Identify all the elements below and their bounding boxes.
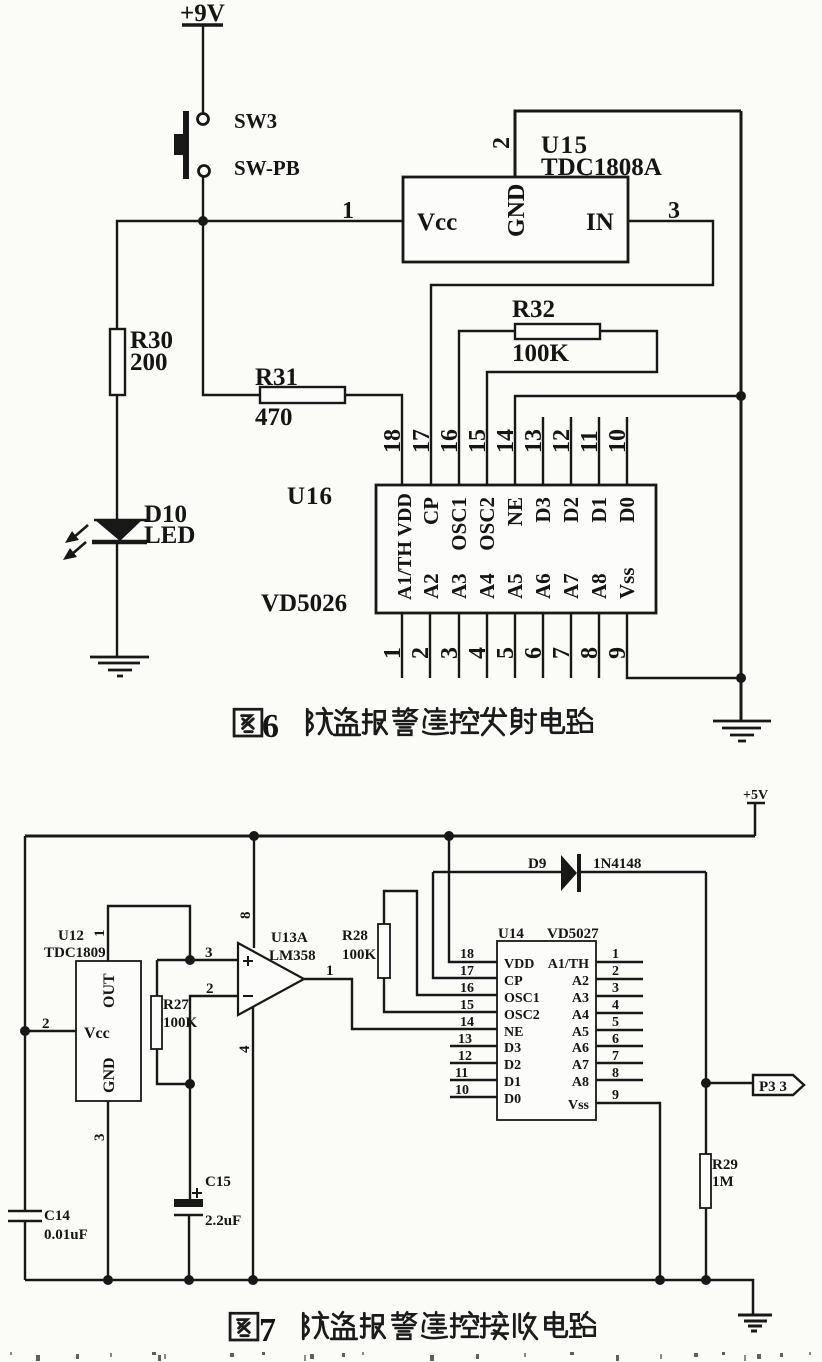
svg-text:OSC1: OSC1 — [447, 497, 471, 551]
svg-text:11: 11 — [577, 430, 603, 453]
svg-text:470: 470 — [255, 404, 293, 431]
junction P3.3 node — [701, 1078, 711, 1088]
svg-text:15: 15 — [465, 429, 491, 453]
svg-text:2.2uF: 2.2uF — [205, 1213, 241, 1229]
svg-text:R28: R28 — [342, 928, 368, 944]
svg-text:18: 18 — [460, 947, 474, 962]
hanzi bao7 — [361, 1313, 385, 1338]
junction C15 rail — [184, 1275, 194, 1285]
svg-text:6: 6 — [521, 647, 547, 659]
svg-text:7: 7 — [612, 1049, 619, 1064]
svg-text:TDC1809: TDC1809 — [44, 945, 106, 961]
svg-text:TDC1808A: TDC1808A — [541, 154, 662, 181]
wire LED to ground — [116, 543, 118, 656]
caption fig6 — [234, 708, 592, 745]
svg-text:NE: NE — [503, 497, 527, 526]
hanzi dao6 — [334, 708, 360, 735]
U14 pin 12 stub — [450, 1062, 497, 1064]
page bottom cut text artifacts — [10, 1352, 811, 1361]
op-amp pin 4 wire — [252, 1007, 254, 1280]
hanzi fang7 — [303, 1312, 328, 1339]
U14 left pin labels — [504, 957, 540, 1107]
svg-text:8: 8 — [612, 1066, 619, 1081]
svg-text:2: 2 — [408, 647, 434, 659]
svg-text:R32: R32 — [512, 296, 555, 323]
svg-text:U13A: U13A — [271, 930, 308, 946]
U16 pin 12 stub — [570, 417, 572, 485]
svg-text:12: 12 — [458, 1049, 472, 1064]
U14 pin 10 stub — [450, 1096, 497, 1098]
svg-text:3: 3 — [437, 647, 463, 659]
U16 pin 7 wire — [570, 613, 572, 678]
junction VDD rail — [444, 831, 454, 841]
svg-text:1N4148: 1N4148 — [593, 856, 641, 872]
U14 pin 11 stub — [450, 1079, 497, 1081]
svg-text:Vss: Vss — [615, 567, 639, 599]
junction U12 GND rail — [103, 1275, 113, 1285]
C15 plus sign — [192, 1188, 202, 1198]
svg-text:D0: D0 — [504, 1092, 521, 1107]
svg-text:A8: A8 — [587, 573, 611, 599]
svg-text:CP: CP — [419, 497, 443, 525]
svg-text:C15: C15 — [205, 1174, 231, 1190]
U16 pin 11 stub — [598, 417, 600, 485]
left rail fig7 — [24, 836, 26, 1211]
resistor R30 — [110, 329, 125, 395]
IC U14 box — [497, 941, 596, 1120]
svg-text:15: 15 — [460, 998, 474, 1013]
U16 pin 13 stub — [542, 417, 544, 485]
diode D9 — [433, 854, 706, 892]
U14 right pin labels — [548, 957, 590, 1113]
U16 pin 6 wire — [542, 613, 544, 678]
wire R30 to LED D10 — [116, 395, 118, 521]
left rail lower segment — [24, 1221, 26, 1280]
hanzi yao6 — [423, 708, 448, 734]
op-amp pin 8 wire — [253, 836, 255, 948]
svg-text:R27: R27 — [163, 997, 189, 1013]
svg-text:D3: D3 — [504, 1041, 521, 1056]
IC U16 box — [376, 485, 656, 613]
svg-text:5: 5 — [493, 647, 519, 659]
IC U15 box — [403, 177, 628, 262]
svg-text:2: 2 — [206, 981, 214, 997]
wire inverting input — [190, 996, 238, 1084]
svg-text:U16: U16 — [287, 483, 333, 510]
svg-text:2: 2 — [612, 964, 619, 979]
junction R29 bottom rail — [701, 1275, 711, 1285]
LED D10 emission arrows — [63, 525, 88, 560]
junction NE rail — [736, 391, 746, 401]
resistor R31 — [260, 387, 345, 403]
junction pin8 rail — [249, 831, 259, 841]
svg-text:3: 3 — [612, 981, 619, 996]
svg-text:Vcc: Vcc — [417, 209, 457, 236]
svg-text:6: 6 — [262, 708, 279, 745]
wire U16 pin 14 NE to right rail — [515, 396, 741, 485]
bottom rail fig7 — [25, 1280, 753, 1315]
hanzi jing7 — [392, 1312, 416, 1339]
junction pin9 bottom rail — [655, 1275, 665, 1285]
svg-text:NE: NE — [504, 1025, 523, 1040]
svg-text:3: 3 — [205, 945, 213, 961]
svg-text:10: 10 — [605, 429, 631, 453]
ground fig7 — [738, 1315, 772, 1331]
svg-text:4: 4 — [465, 647, 491, 659]
svg-text:7: 7 — [259, 1312, 276, 1349]
svg-text:1: 1 — [326, 963, 334, 979]
svg-text:13: 13 — [458, 1032, 472, 1047]
ground fig6 right — [713, 721, 771, 741]
svg-text:D1: D1 — [587, 497, 611, 523]
svg-text:16: 16 — [460, 981, 474, 996]
hanzi dian6 — [542, 708, 563, 733]
svg-text:LED: LED — [144, 522, 195, 549]
svg-text:4: 4 — [237, 1045, 253, 1053]
wire U12 OUT to op-amp input — [108, 906, 190, 961]
wire rail to U14 VDD — [449, 836, 497, 962]
wire op-amp output to U14 NE — [304, 979, 497, 1029]
U16 pin 9 wire to rail — [627, 613, 741, 678]
wire to P3.3 port — [706, 1082, 753, 1084]
hanzi kong6 — [451, 708, 478, 733]
svg-text:A1/TH: A1/TH — [548, 957, 589, 972]
hanzi yao7 — [422, 1312, 447, 1338]
svg-text:OSC2: OSC2 — [475, 497, 499, 551]
svg-text:1: 1 — [612, 947, 619, 962]
svg-text:18: 18 — [380, 429, 406, 453]
hanzi jing6 — [393, 708, 417, 735]
op-amp U13A — [238, 943, 304, 1015]
svg-text:9: 9 — [612, 1088, 619, 1103]
svg-text:D3: D3 — [531, 497, 555, 523]
svg-text:16: 16 — [437, 429, 463, 453]
resistor R29 — [700, 1083, 711, 1280]
wire D9 anode to U14 CP — [433, 872, 497, 978]
svg-text:100K: 100K — [342, 947, 377, 963]
U16 pin 5 wire — [514, 613, 516, 678]
hanzi shou7 — [514, 1313, 536, 1339]
resistor R32 — [515, 324, 600, 339]
wire U15 IN pin 3 to U16 pin 17 — [431, 221, 713, 485]
svg-text:A4: A4 — [475, 573, 499, 599]
U16 pin 10 stub — [626, 417, 628, 485]
svg-text:U14: U14 — [498, 926, 524, 942]
node A junction — [198, 216, 208, 226]
svg-text:D2: D2 — [504, 1058, 521, 1073]
hanzi jie7 — [481, 1312, 508, 1339]
svg-text:9: 9 — [605, 647, 631, 659]
svg-text:VDD: VDD — [504, 957, 534, 972]
hanzi tu7 — [230, 1313, 258, 1340]
svg-text:D0: D0 — [615, 497, 639, 523]
svg-text:4: 4 — [612, 998, 619, 1013]
wire node A down to R31 — [203, 221, 260, 395]
U14 pin 9 wire to bottom rail — [596, 1103, 660, 1280]
U16 pin 4 wire — [486, 613, 488, 678]
port P3.3 — [753, 1075, 804, 1095]
wire node A to U15 pin 1 — [203, 220, 403, 222]
svg-text:OSC1: OSC1 — [504, 991, 540, 1006]
svg-text:12: 12 — [549, 429, 575, 453]
hanzi lu6 — [567, 708, 592, 733]
hanzi dian7 — [545, 1312, 566, 1337]
svg-text:R29: R29 — [712, 1157, 738, 1173]
svg-text:2: 2 — [42, 1016, 50, 1032]
hanzi fang6 — [307, 708, 332, 735]
svg-text:3: 3 — [92, 1134, 108, 1142]
svg-text:GND: GND — [504, 184, 530, 237]
capacitor C15 — [174, 1199, 203, 1280]
svg-text:200: 200 — [130, 349, 168, 376]
svg-text:6: 6 — [612, 1032, 619, 1047]
svg-text:A2: A2 — [419, 573, 443, 599]
svg-text:A5: A5 — [503, 573, 527, 599]
svg-text:Vss: Vss — [568, 1098, 590, 1113]
hanzi lu7 — [570, 1312, 595, 1337]
svg-text:A6: A6 — [572, 1041, 589, 1056]
svg-text:17: 17 — [409, 429, 435, 453]
svg-text:OUT: OUT — [101, 973, 118, 1008]
svg-text:CP: CP — [504, 974, 523, 989]
svg-text:A3: A3 — [447, 573, 471, 599]
svg-text:R31: R31 — [255, 364, 298, 391]
wire +9V to SW3 — [202, 25, 204, 113]
resistor R28 — [378, 891, 497, 1012]
svg-text:7: 7 — [549, 647, 575, 659]
svg-text:A6: A6 — [531, 573, 555, 599]
U16 pin 8 wire — [598, 613, 600, 678]
hanzi fa6 — [481, 708, 506, 735]
op-amp minus marking — [243, 995, 253, 997]
svg-text:11: 11 — [455, 1066, 468, 1081]
svg-text:D1: D1 — [504, 1075, 521, 1090]
svg-text:A2: A2 — [572, 974, 589, 989]
wire SW3 to node A — [202, 177, 204, 221]
svg-text:Vcc: Vcc — [84, 1025, 110, 1042]
svg-text:100K: 100K — [512, 340, 570, 367]
switch SW3 — [174, 111, 210, 179]
svg-text:C14: C14 — [44, 1208, 70, 1224]
wire R32 left to U16 pin 16 — [459, 331, 515, 485]
junction pin9 rail — [736, 673, 746, 683]
svg-text:LM358: LM358 — [269, 948, 316, 964]
svg-text:14: 14 — [460, 1015, 474, 1030]
svg-text:1M: 1M — [712, 1174, 734, 1190]
right rail wire fig6 — [740, 111, 743, 721]
wire inverting node to C15 — [189, 1084, 191, 1199]
caption fig7 — [230, 1312, 595, 1349]
svg-text:13: 13 — [521, 429, 547, 453]
svg-text:A5: A5 — [572, 1025, 589, 1040]
svg-text:5: 5 — [612, 1015, 619, 1030]
svg-text:IN: IN — [586, 209, 614, 236]
wire node A to R30 — [117, 221, 203, 329]
svg-text:GND: GND — [101, 1057, 118, 1093]
ground under LED — [90, 657, 149, 676]
svg-text:D2: D2 — [559, 497, 583, 523]
svg-text:+5V: +5V — [743, 788, 768, 803]
svg-text:2: 2 — [489, 137, 515, 149]
svg-text:A1/TH VDD: A1/TH VDD — [394, 493, 416, 600]
wire R31 to U16 pin 18 — [345, 395, 402, 485]
svg-text:P3 3: P3 3 — [759, 1079, 787, 1095]
svg-text:14: 14 — [493, 429, 519, 453]
svg-text:1: 1 — [92, 930, 108, 938]
op-amp plus marking — [243, 956, 253, 966]
svg-text:A7: A7 — [559, 573, 583, 599]
svg-text:SW3: SW3 — [234, 109, 277, 133]
U16 pin 2 wire — [429, 613, 431, 678]
svg-text:100K: 100K — [163, 1015, 198, 1031]
svg-text:VD5027: VD5027 — [547, 926, 599, 942]
svg-text:17: 17 — [460, 964, 474, 979]
svg-text:A8: A8 — [572, 1075, 589, 1090]
svg-text:U12: U12 — [58, 928, 84, 944]
svg-text:A7: A7 — [572, 1058, 589, 1073]
wire U12 GND to bottom rail — [107, 1101, 109, 1280]
svg-text:VD5026: VD5026 — [261, 590, 347, 617]
svg-text:1: 1 — [380, 647, 406, 659]
U16 pin 1 wire — [401, 613, 403, 678]
junction pin4 rail — [248, 1275, 258, 1285]
U14 right pin numbers — [612, 947, 619, 1103]
junction noninverting node — [185, 955, 195, 965]
svg-text:8: 8 — [238, 912, 254, 920]
U14 pin 13 stub — [450, 1045, 497, 1047]
top rail fig7 — [25, 835, 755, 838]
svg-text:D9: D9 — [528, 856, 546, 872]
hanzi bao6 — [363, 709, 387, 734]
wire R32 right to U16 pin 15 — [487, 331, 657, 485]
svg-text:10: 10 — [455, 1083, 469, 1098]
U14 right pins 1-8 — [596, 962, 643, 1080]
IC U12 box — [76, 961, 141, 1101]
hanzi tu6 — [234, 709, 262, 736]
svg-text:A4: A4 — [572, 1008, 589, 1023]
junction left rail Vcc — [20, 1026, 30, 1036]
hanzi kong7 — [451, 1312, 478, 1337]
wire U15 GND pin 2 to top rail — [515, 111, 741, 177]
wire D9 cathode down — [705, 872, 707, 1083]
U16 pin 3 wire — [458, 613, 460, 678]
power +9V — [180, 0, 225, 27]
svg-text:+9V: +9V — [180, 0, 225, 27]
power +5V — [743, 788, 768, 836]
svg-text:0.01uF: 0.01uF — [44, 1227, 88, 1243]
LED D10 — [92, 520, 148, 542]
capacitor C14 — [8, 1211, 42, 1221]
resistor R27 — [151, 960, 190, 1084]
svg-text:A3: A3 — [572, 991, 589, 1006]
svg-text:OSC2: OSC2 — [504, 1008, 540, 1023]
svg-text:8: 8 — [577, 647, 603, 659]
wire noninverting input — [157, 959, 238, 961]
svg-text:SW-PB: SW-PB — [234, 156, 300, 180]
hanzi dao7 — [331, 1312, 357, 1339]
wire left rail to U12 Vcc — [25, 1030, 76, 1032]
hanzi she6 — [511, 708, 536, 734]
junction inverting node — [185, 1079, 195, 1089]
